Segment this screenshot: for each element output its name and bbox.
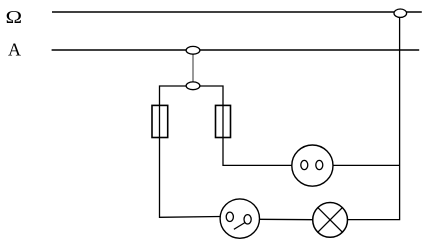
fuse F1 (left branch) [152, 105, 168, 137]
wire: top supply line (net O) [52, 11, 422, 13]
wire: phase line (net A) [52, 49, 420, 51]
fuse F2 (right branch) [216, 105, 231, 137]
wire: socket X1 to right vertical [333, 164, 400, 166]
lamp D1: circle with X cross [313, 203, 348, 238]
wire: right vertical drop from node J3 to lamp branch [347, 14, 399, 220]
node J1: tap ellipse on line A [186, 46, 200, 54]
node J2: distribution node ellipse [186, 82, 200, 90]
wire: node J2 to right fuse branch down to socket feed [200, 86, 292, 165]
switch S1: circle switch symbol with two contacts and lever [220, 199, 259, 238]
svg-text:Ω: Ω [6, 8, 23, 28]
node J3: tap ellipse on top line [394, 9, 407, 17]
wire: switch S1 to lamp D1 [260, 218, 313, 220]
svg-text:A: A [8, 40, 21, 60]
socket X1: receptacle symbol (circle with two pin holes) [292, 145, 333, 186]
wire: link from node J1 down to node J2 [192, 52, 194, 84]
wire: node J2 to left fuse branch and down to bottom rail [160, 86, 221, 217]
